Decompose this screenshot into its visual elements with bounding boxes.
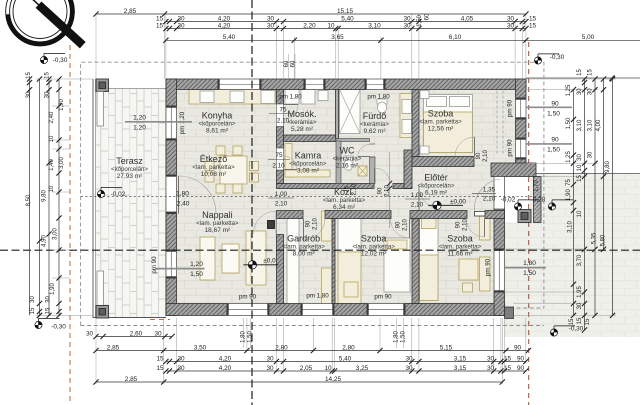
level marker -0,30 bottom-right [550, 326, 575, 336]
level marker -0,28 porch [548, 200, 573, 210]
svg-text:30: 30 [405, 365, 413, 372]
svg-text:15: 15 [30, 307, 36, 314]
svg-text:2,85: 2,85 [124, 8, 137, 15]
svg-text:WC: WC [340, 146, 355, 156]
svg-text:8,50: 8,50 [26, 194, 32, 206]
dimension row bottom 0 [96, 336, 172, 338]
svg-text:2,10: 2,10 [313, 218, 319, 230]
svg-text:1,50: 1,50 [190, 271, 203, 278]
svg-text:Szoba: Szoba [361, 234, 387, 244]
svg-text:2,40: 2,40 [177, 201, 190, 208]
svg-text:10: 10 [324, 365, 332, 372]
svg-text:Terasz: Terasz [116, 156, 143, 166]
svg-text:3,70: 3,70 [577, 254, 583, 266]
west exterior wall seg1 [166, 79, 177, 106]
svg-text:Konyha: Konyha [202, 110, 233, 120]
svg-text:<kőporcelán>: <kőporcelán> [199, 120, 236, 127]
dimension row top 4 [166, 39, 640, 41]
svg-text:Szoba: Szoba [447, 234, 473, 244]
southeast corner block [505, 307, 514, 319]
window living room south [227, 304, 269, 316]
svg-text:30: 30 [588, 151, 594, 158]
svg-text:1,50: 1,50 [547, 147, 560, 154]
svg-text:30: 30 [86, 330, 94, 337]
svg-text:2,16 m²: 2,16 m² [336, 163, 359, 170]
svg-text:1,00: 1,00 [275, 191, 288, 198]
svg-text:5,80: 5,80 [601, 234, 607, 246]
svg-text:1,90: 1,90 [566, 189, 572, 201]
svg-text:5,35: 5,35 [592, 232, 598, 244]
svg-text:Előtér: Előtér [424, 172, 448, 182]
svg-text:3,00: 3,00 [53, 228, 59, 240]
svg-text:30: 30 [577, 302, 583, 309]
kitchen sink [200, 91, 214, 103]
svg-text:90: 90 [456, 221, 462, 228]
svg-text:5,15: 5,15 [440, 344, 453, 351]
svg-text:3,10: 3,10 [588, 119, 594, 131]
dimension row bottom 1 [96, 350, 528, 352]
window room1 east a [516, 98, 527, 119]
svg-text:90: 90 [476, 152, 482, 159]
section line vertical [251, 0, 253, 405]
svg-text:12,02 m²: 12,02 m² [361, 251, 387, 258]
corridor north wall west part [277, 184, 375, 189]
svg-text:3,65: 3,65 [331, 34, 344, 41]
door wc [370, 143, 376, 145]
svg-text:30: 30 [154, 330, 162, 337]
svg-text:1,25: 1,25 [566, 84, 572, 96]
svg-text:30: 30 [266, 365, 274, 372]
bed room2 [384, 238, 410, 292]
bed room1 top-right [424, 95, 473, 153]
svg-text:5,28 m²: 5,28 m² [291, 126, 314, 133]
svg-text:2,85: 2,85 [107, 344, 120, 351]
svg-text:3,10: 3,10 [368, 22, 381, 29]
svg-text:-0,02: -0,02 [501, 197, 516, 204]
entry porch pillar [518, 210, 531, 223]
svg-text:90: 90 [517, 365, 525, 372]
svg-text:pm 1,20: pm 1,20 [179, 111, 186, 134]
left rotated dimension labels [26, 72, 65, 315]
svg-text:30: 30 [267, 22, 275, 29]
svg-text:<lam. parketta>: <lam. parketta> [419, 118, 462, 125]
svg-text:30: 30 [403, 15, 411, 22]
living room coffee table [222, 244, 239, 273]
wall kitchen-laundry mid [277, 127, 284, 149]
svg-text:2,05: 2,05 [300, 365, 313, 372]
wardrobe shelf gardrob [287, 211, 299, 304]
svg-text:15: 15 [588, 69, 594, 76]
svg-text:4,05: 4,05 [461, 15, 474, 22]
svg-text:pm 90: pm 90 [507, 99, 514, 117]
roof overhang dashed outline [81, 62, 544, 325]
dining table [220, 156, 247, 184]
svg-text:75: 75 [275, 152, 283, 159]
south exterior wall seg2 [269, 304, 301, 316]
entrance door leaf and swing [475, 212, 501, 217]
chimney block [268, 221, 275, 229]
svg-text:30: 30 [405, 355, 413, 362]
svg-text:Gardrób: Gardrób [287, 234, 320, 244]
svg-text:±0,0: ±0,0 [263, 257, 276, 264]
kitchen counter [189, 90, 276, 105]
svg-text:2,10: 2,10 [483, 196, 496, 203]
door pantry [277, 148, 284, 170]
north exterior wall seg3 [325, 79, 365, 90]
svg-text:-0,02: -0,02 [111, 191, 126, 198]
svg-text:1,50: 1,50 [248, 331, 254, 343]
dimension row top 2 [166, 21, 526, 23]
svg-text:15: 15 [577, 69, 583, 76]
wc radiator [358, 166, 367, 176]
svg-text:1,50: 1,50 [401, 331, 407, 343]
fence line east mid [526, 173, 640, 175]
svg-text:5,40: 5,40 [341, 15, 354, 22]
south exterior wall seg4 [405, 304, 505, 316]
wall laundry-pantry [284, 135, 337, 142]
svg-text:30: 30 [577, 154, 583, 161]
extension lines left [36, 79, 93, 315]
svg-text:<lam. parketta>: <lam. parketta> [192, 164, 235, 171]
svg-text:4,20: 4,20 [218, 22, 231, 29]
svg-text:1,20: 1,20 [133, 115, 146, 122]
pantry shelves [285, 144, 292, 178]
svg-text:6,19 m²: 6,19 m² [425, 189, 448, 196]
svg-text:<lam. parketta>: <lam. parketta> [439, 244, 482, 251]
svg-text:pm 1,80: pm 1,80 [367, 94, 390, 101]
south exterior wall seg3 [334, 304, 367, 316]
svg-text:1,50: 1,50 [547, 110, 560, 117]
room1 south wall [412, 157, 474, 167]
left vertical dimension lines [27, 76, 62, 318]
svg-text:30: 30 [177, 22, 185, 29]
east exterior wall lower seg1 [494, 209, 505, 249]
svg-text:pm 90: pm 90 [151, 256, 158, 274]
svg-text:2,10: 2,10 [403, 219, 409, 231]
corridor south wall seg1 [277, 211, 304, 219]
corridor floor part [419, 163, 504, 211]
svg-text:<kerámia>: <kerámia> [360, 121, 389, 128]
svg-text:1,80: 1,80 [394, 331, 400, 343]
svg-text:10: 10 [327, 22, 335, 29]
bath niche wall [404, 150, 412, 189]
svg-text:1,90: 1,90 [50, 283, 56, 295]
boundary dashed red [528, 42, 530, 405]
svg-text:1,50: 1,50 [417, 15, 423, 27]
svg-text:30: 30 [45, 91, 51, 98]
svg-text:15: 15 [529, 15, 537, 22]
west exterior wall seg3 [166, 214, 177, 251]
svg-text:15: 15 [26, 72, 32, 79]
svg-text:3,25: 3,25 [356, 365, 369, 372]
svg-text:9,80: 9,80 [605, 161, 611, 173]
svg-text:1,90: 1,90 [59, 99, 65, 111]
window bedroom3 east [494, 249, 505, 292]
svg-text:2,10: 2,10 [352, 183, 358, 195]
svg-text:3,00: 3,00 [59, 157, 65, 169]
svg-text:1,00: 1,00 [411, 192, 424, 199]
shower cabin [340, 90, 361, 134]
svg-text:<kőporcelán>: <kőporcelán> [111, 166, 148, 173]
svg-text:30: 30 [588, 88, 594, 95]
svg-text:1,80: 1,80 [523, 260, 536, 267]
terrace edge pier lower [97, 271, 104, 306]
svg-text:2,20: 2,20 [303, 22, 316, 29]
svg-text:3,08 m²: 3,08 m² [297, 167, 320, 174]
window living room west [166, 250, 177, 278]
svg-text:10: 10 [577, 210, 583, 217]
window kitchen west [166, 106, 177, 140]
svg-text:8,00 m²: 8,00 m² [293, 251, 316, 258]
svg-text:<kőporcelán>: <kőporcelán> [290, 160, 327, 167]
svg-text:30: 30 [403, 22, 411, 29]
window laundry north [304, 79, 325, 90]
room floors lower band [177, 163, 495, 304]
svg-text:8,61 m²: 8,61 m² [206, 127, 229, 134]
svg-text:15: 15 [156, 365, 164, 372]
svg-text:3,10: 3,10 [568, 221, 574, 233]
svg-text:2,10: 2,10 [463, 219, 469, 231]
dining chairs [216, 146, 225, 155]
living room tv board [200, 237, 215, 280]
svg-text:15: 15 [585, 318, 591, 325]
svg-text:4,20: 4,20 [219, 365, 232, 372]
svg-text:1,80: 1,80 [241, 331, 247, 343]
level marker +-0,0 living [243, 261, 278, 269]
svg-text:4,90: 4,90 [42, 235, 48, 247]
terrace edge lines [92, 79, 94, 318]
door bedroom3 [466, 211, 468, 219]
door gardrob [302, 211, 304, 219]
svg-text:2,10: 2,10 [483, 150, 489, 162]
svg-text:90: 90 [378, 187, 384, 194]
extension lines bottom [96, 318, 526, 384]
svg-text:2,85: 2,85 [125, 376, 138, 383]
svg-text:10: 10 [577, 164, 583, 171]
svg-text:15: 15 [569, 318, 575, 325]
north arrow symbol [6, 0, 86, 48]
wall living-gardrob [277, 235, 284, 304]
svg-text:30: 30 [507, 15, 515, 22]
north exterior wall seg4 [385, 79, 526, 90]
boundary dashed orange [69, 45, 71, 405]
door living room [277, 210, 284, 212]
svg-text:6,10: 6,10 [449, 34, 462, 41]
svg-text:15: 15 [577, 175, 583, 182]
corridor south wall seg2 [325, 211, 391, 219]
svg-text:-0,30: -0,30 [569, 326, 584, 333]
wall gardrob-bedroom2 [332, 219, 335, 304]
north exterior wall seg1 [166, 79, 218, 90]
svg-text:15: 15 [46, 307, 52, 314]
svg-text:-0,30: -0,30 [51, 324, 66, 331]
svg-text:18,67 m²: 18,67 m² [205, 227, 231, 234]
svg-text:30: 30 [507, 22, 515, 29]
bathroom toilet [377, 99, 387, 104]
entrance door opening [494, 177, 505, 210]
east exterior wall upper seg1 [516, 79, 527, 98]
washbasin counter [400, 94, 414, 138]
svg-text:1,80: 1,80 [176, 191, 189, 198]
svg-text:9,80: 9,80 [42, 190, 48, 202]
entry corner wall block [491, 163, 536, 177]
svg-text:<kerámia>: <kerámia> [288, 119, 317, 126]
svg-text:1,20: 1,20 [190, 261, 203, 268]
svg-text:2,60: 2,60 [130, 330, 143, 337]
svg-text:90: 90 [551, 100, 559, 107]
svg-text:60: 60 [291, 60, 297, 67]
south exterior wall seg1 [166, 304, 227, 316]
kitchen stove [230, 91, 244, 103]
wall bedroom2-bedroom3 [412, 219, 419, 304]
svg-text:90: 90 [306, 220, 312, 227]
east exterior wall upper seg3 [516, 159, 527, 167]
svg-text:pm 90: pm 90 [374, 294, 392, 301]
svg-text:5,40: 5,40 [223, 34, 236, 41]
dimension row top 1 [96, 13, 526, 15]
level marker -0,30 top-left [40, 53, 65, 63]
svg-text:1,95: 1,95 [577, 286, 583, 298]
door corridor-entry [418, 186, 420, 210]
west exterior wall seg2 [166, 140, 177, 176]
svg-text:1,50: 1,50 [566, 117, 572, 129]
svg-text:±0,00: ±0,00 [450, 198, 466, 205]
svg-text:1,20: 1,20 [133, 125, 146, 132]
svg-text:pm 90: pm 90 [507, 139, 514, 157]
svg-text:Kamra: Kamra [295, 150, 322, 160]
svg-text:30: 30 [487, 365, 495, 372]
paved ground east of house [505, 174, 640, 338]
room floors upper band [177, 90, 516, 163]
svg-text:3,10: 3,10 [577, 119, 583, 131]
svg-text:15: 15 [577, 317, 583, 324]
wc walls [336, 139, 370, 142]
level marker -0,02 porch [514, 200, 539, 210]
bed room3 [420, 216, 439, 301]
extension lines top [96, 13, 526, 79]
east exterior wall lower seg2 [494, 292, 505, 316]
level marker +-0,00 entry [428, 201, 463, 209]
dimension row bottom 3 [166, 370, 526, 372]
svg-text:3,15: 3,15 [454, 355, 467, 362]
svg-text:<lam. parketta>: <lam. parketta> [196, 220, 239, 227]
tick on fence line [609, 75, 614, 80]
window room1 east b [516, 138, 527, 159]
terrace post bottom-left [96, 306, 109, 319]
north exterior wall seg2 [261, 79, 304, 90]
svg-text:30: 30 [177, 365, 185, 372]
east exterior wall upper seg2 [516, 119, 527, 138]
svg-text:11,66 m²: 11,66 m² [447, 251, 473, 258]
svg-text:4,20: 4,20 [218, 15, 231, 22]
svg-text:30: 30 [177, 15, 185, 22]
west exterior wall seg4 [166, 278, 177, 315]
fence line east upper [526, 77, 640, 79]
svg-text:30: 30 [266, 355, 274, 362]
svg-text:pm 1,80: pm 1,80 [279, 94, 302, 101]
svg-text:1,70: 1,70 [534, 180, 540, 192]
svg-text:15: 15 [156, 15, 164, 22]
svg-text:15,15: 15,15 [337, 8, 353, 15]
wardrobe room2 [338, 211, 361, 252]
corridor south wall seg4 [485, 211, 505, 219]
svg-text:60: 60 [425, 13, 431, 20]
terrace post top-left [96, 79, 109, 92]
terrace floor (Terasz) [96, 89, 167, 318]
svg-text:15: 15 [529, 22, 537, 29]
svg-text:Fürdő: Fürdő [363, 111, 387, 121]
svg-text:-0,30: -0,30 [53, 57, 68, 64]
svg-text:pm 90: pm 90 [485, 258, 492, 276]
svg-text:1,35: 1,35 [483, 187, 496, 194]
door bath [373, 184, 375, 189]
entry side wall strip [534, 177, 542, 223]
svg-text:1,25: 1,25 [566, 151, 572, 163]
corridor south wall seg3 [410, 211, 467, 219]
svg-text:2,80: 2,80 [342, 344, 355, 351]
svg-text:Mosók.: Mosók. [287, 109, 316, 119]
svg-text:<lam. parketta>: <lam. parketta> [353, 244, 396, 251]
svg-text:15: 15 [504, 365, 512, 372]
wall kitchen-laundry [277, 90, 284, 105]
extension lines right [505, 79, 617, 315]
svg-text:-0,30: -0,30 [550, 54, 565, 61]
kitchen fridge [261, 91, 275, 104]
svg-text:4,00: 4,00 [596, 119, 602, 131]
dimension row bottom 2 [166, 361, 526, 363]
svg-text:10,08 m²: 10,08 m² [201, 171, 227, 178]
door bedroom2 [390, 211, 392, 219]
nightstand room1 [420, 91, 429, 99]
svg-text:30: 30 [46, 296, 52, 303]
svg-text:2,10: 2,10 [272, 163, 285, 170]
svg-text:15: 15 [156, 355, 164, 362]
right rotated dimension labels [566, 69, 611, 326]
svg-text:6,34 m²: 6,34 m² [333, 204, 356, 211]
wall bath-room1 [412, 90, 419, 157]
terrace door opening [166, 176, 177, 214]
svg-text:10: 10 [49, 185, 55, 192]
right vertical dimension lines [571, 76, 615, 332]
svg-text:30: 30 [577, 88, 583, 95]
svg-text:12,56 m²: 12,56 m² [428, 125, 454, 132]
svg-text:5,40: 5,40 [339, 355, 352, 362]
living room sofa [246, 231, 266, 285]
door laundry [277, 104, 284, 127]
svg-text:pm 1,80: pm 1,80 [306, 293, 329, 300]
svg-text:2,80: 2,80 [275, 344, 288, 351]
svg-text:30: 30 [267, 15, 275, 22]
laundry machines [285, 90, 299, 105]
svg-text:3,15: 3,15 [454, 365, 467, 372]
svg-text:Étkező: Étkező [200, 154, 228, 164]
svg-text:<lam. parketta>: <lam. parketta> [323, 197, 366, 204]
svg-text:90: 90 [396, 221, 402, 228]
desk room3 [459, 259, 478, 280]
svg-text:90: 90 [514, 344, 522, 351]
svg-text:15: 15 [45, 72, 51, 79]
svg-text:30: 30 [487, 355, 495, 362]
svg-text:2,10: 2,10 [277, 118, 290, 125]
svg-text:Szoba: Szoba [428, 108, 454, 118]
svg-text:15: 15 [156, 22, 164, 29]
window bedroom2 south [367, 304, 405, 316]
dimension row bottom 4 [96, 381, 502, 383]
wall kitchen-pantry low [277, 170, 284, 184]
svg-text:<kőporcelán>: <kőporcelán> [418, 182, 455, 189]
svg-text:30: 30 [26, 91, 32, 98]
svg-text:75: 75 [566, 179, 572, 186]
